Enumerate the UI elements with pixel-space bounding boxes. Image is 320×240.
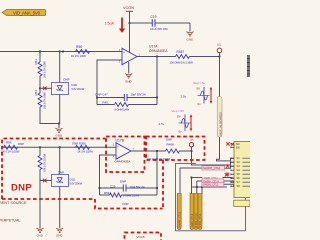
zener diode D20 — [40, 147, 83, 228]
svg-text:Vo-p = 5V: Vo-p = 5V — [172, 109, 184, 113]
svg-text:DNP: DNP — [120, 180, 126, 184]
DNP X mark net — [225, 173, 228, 176]
op-amp U17A — [119, 44, 169, 64]
svg-text:S6: S6 — [237, 176, 241, 180]
resistor R96 — [1, 141, 25, 154]
svg-text:S4: S4 — [237, 168, 241, 172]
svg-text:100 OHM 1% 1/16W: 100 OHM 1% 1/16W — [147, 157, 171, 161]
DNP X marks at mux pins — [226, 142, 229, 145]
svg-text:0.1UF 50V 10%: 0.1UF 50V 10% — [150, 27, 168, 31]
wire long vertical to mux — [217, 57, 235, 161]
current annotation 1.7uA red arrow right — [233, 143, 246, 159]
svg-text:C29: C29 — [110, 184, 116, 188]
net flag yellow vertical 1 — [177, 194, 181, 230]
svg-text:R59: R59 — [104, 191, 110, 195]
DNP X mark on D20 wire — [43, 179, 47, 183]
capacitor C29 feedback — [100, 180, 158, 192]
svg-text:SHUNT_CTL0: SHUNT_CTL0 — [178, 211, 181, 228]
svg-text:R50: R50 — [76, 45, 82, 49]
net label SHUNT_CTL0 — [180, 166, 234, 170]
svg-text:10pF 50V 2%: 10pF 50V 2% — [131, 92, 147, 96]
svg-text:VID_ANA_5V0: VID_ANA_5V0 — [13, 11, 41, 16]
svg-text:10K 0.1% 1/16W: 10K 0.1% 1/16W — [43, 153, 47, 172]
svg-text:DNP: DNP — [123, 202, 129, 206]
svg-text:1K 1% 1/16W: 1K 1% 1/16W — [78, 150, 94, 154]
net flag MUX_IN vertical label — [217, 97, 222, 138]
resistor R59 feedback — [100, 191, 158, 206]
resistor R468 — [147, 138, 179, 161]
svg-text:SHDN_CTL1: SHDN_CTL1 — [199, 213, 202, 228]
svg-text:DNP: DNP — [11, 183, 32, 194]
DNP dashed box left region — [2, 139, 163, 209]
power VCON — [123, 6, 134, 53]
net label SHDN_CTL0 — [197, 179, 234, 184]
resistor R45 feedback — [97, 101, 157, 112]
wire U17B output — [131, 150, 166, 152]
node junction output-feedback — [156, 55, 158, 57]
net flag yellow vertical 2 — [190, 194, 194, 230]
svg-text:106: 106 — [190, 139, 195, 142]
node junction R51-R54-D18 — [39, 87, 41, 89]
svg-text:NC: NC — [236, 142, 240, 146]
connector pin circle top — [217, 44, 222, 57]
svg-text:+: + — [123, 50, 125, 54]
mux pin arrowheads — [231, 143, 233, 187]
node junction pinB — [190, 150, 192, 152]
svg-text:5V: 5V — [177, 115, 181, 119]
node junction VCON-C19 — [128, 22, 130, 24]
svg-text:0v: 0v — [198, 102, 202, 106]
wire horizontal y187 — [192, 186, 228, 188]
ground GND below D20 — [56, 228, 63, 238]
svg-text:U17A: U17A — [149, 44, 158, 48]
node junction C47 right — [156, 96, 158, 98]
wire net vertical to flag2 — [191, 178, 193, 194]
ground GND below U17A — [125, 62, 133, 84]
capacitor C19 — [130, 15, 191, 31]
wire U17A output — [137, 56, 176, 58]
svg-text:DNP R366: DNP R366 — [72, 142, 86, 146]
svg-text:GND: GND — [125, 80, 133, 84]
svg-text:OPA4340EA: OPA4340EA — [115, 160, 131, 164]
svg-text:U17B: U17B — [116, 138, 125, 142]
svg-text:101: 101 — [217, 44, 222, 47]
svg-text:S8: S8 — [237, 184, 241, 188]
ground GND for C19 — [187, 23, 195, 42]
wire lower rail — [2, 146, 116, 148]
svg-text:OPA4340EA: OPA4340EA — [149, 49, 168, 53]
node junction rail-R51 — [39, 50, 41, 52]
current annotation 1.5uA red arrow — [105, 18, 126, 33]
DNP dashed vertical connector — [162, 160, 164, 209]
resistor vertical lower — [38, 147, 47, 228]
DNP dashed box VCC bottom — [125, 233, 162, 240]
svg-text:GND: GND — [56, 234, 62, 238]
svg-text:DNP: DNP — [64, 78, 70, 82]
svg-text:10K 0.1% 1/8W: 10K 0.1% 1/8W — [43, 92, 47, 109]
wire net vertical to flag4 — [201, 184, 203, 193]
svg-text:VCC5: VCC5 — [137, 235, 145, 239]
svg-text:DNP C47: DNP C47 — [96, 92, 109, 96]
svg-text:10K 0.1% 1/16W: 10K 0.1% 1/16W — [1, 150, 20, 154]
resistor R487 — [170, 50, 194, 64]
DNP dashed box U17B — [106, 137, 145, 173]
wire feedbackB right vertical — [156, 151, 158, 195]
svg-text:5.6V 20mW: 5.6V 20mW — [70, 182, 83, 186]
svg-text:20pF 50V 2%: 20pF 50V 2% — [130, 185, 146, 189]
node junction outputB-feedback — [156, 150, 158, 152]
svg-text:S3: S3 — [237, 164, 241, 168]
wire U17A inverting input — [97, 60, 122, 105]
svg-text:S5: S5 — [237, 172, 241, 176]
svg-text:DNP: DNP — [166, 138, 172, 142]
wire feedback right vertical — [156, 57, 158, 105]
node junction bottom rail — [58, 122, 60, 124]
svg-text:D18: D18 — [72, 83, 78, 87]
net label SHDN_CTL1 — [202, 182, 234, 186]
svg-text:GND: GND — [56, 134, 64, 138]
svg-text:C19: C19 — [151, 15, 157, 19]
svg-text:R51: R51 — [34, 59, 38, 65]
svg-text:DNP: DNP — [58, 171, 64, 175]
net flag yellow vertical 3 — [194, 194, 198, 230]
svg-text:R96: R96 — [6, 141, 12, 145]
node junction rail left — [62, 50, 64, 52]
node junction 187a — [196, 186, 198, 188]
svg-text:GND: GND — [187, 38, 195, 42]
svg-text:GND: GND — [37, 234, 43, 238]
svg-text:0 OHM 1/16W: 0 OHM 1/16W — [123, 193, 139, 197]
svg-text:+: + — [117, 145, 119, 149]
svg-text:S1: S1 — [237, 156, 241, 160]
svg-text:0v: 0v — [179, 130, 183, 134]
zener diode D18 — [40, 52, 85, 124]
svg-text:S7: S7 — [237, 180, 241, 184]
waveform annotation lower — [159, 109, 193, 134]
node junction at pin — [218, 55, 220, 57]
op-amp U17B — [113, 138, 135, 163]
svg-text:SHDN_CTL1: SHDN_CTL1 — [203, 183, 219, 187]
wire U17B inverting input — [100, 155, 117, 195]
frame sheet boundary — [176, 164, 246, 231]
resistor R366 — [72, 142, 93, 154]
svg-text:D20: D20 — [70, 178, 76, 182]
svg-text:Vo-p = 5v: Vo-p = 5v — [193, 81, 205, 85]
connector pin circle B — [189, 139, 194, 151]
svg-text:0 OHM 1/4W: 0 OHM 1/4W — [115, 107, 130, 111]
svg-text:S2: S2 — [237, 160, 241, 164]
svg-text:RENT SOURCE: RENT SOURCE — [0, 201, 27, 205]
svg-text:MUX_IN_BOARD0: MUX_IN_BOARD0 — [218, 112, 222, 136]
node junction loadctl — [190, 176, 192, 178]
svg-text:SHUNT_CTL0: SHUNT_CTL0 — [203, 166, 221, 170]
DNP dashed box R468 — [146, 137, 205, 161]
node junction C29 left — [98, 187, 100, 189]
svg-text:R487: R487 — [177, 50, 185, 54]
ground GND lower left — [37, 228, 44, 238]
svg-text:1.5uA: 1.5uA — [105, 22, 115, 26]
node junction rail-D20 — [59, 146, 61, 148]
capacitor C47 feedback — [96, 92, 158, 101]
resistor R50 — [71, 45, 89, 58]
svg-text:5.6V 20mW: 5.6V 20mW — [72, 87, 85, 91]
wire R468 to pin — [180, 150, 192, 152]
waveform annotation upper — [181, 81, 213, 106]
node junction 187b — [201, 186, 203, 188]
svg-text:R468: R468 — [167, 143, 175, 147]
svg-text:100 OHM 1% 1/16W: 100 OHM 1% 1/16W — [170, 60, 194, 64]
net flag VIN power label top-left — [2, 9, 46, 15]
mux internal switch lines — [243, 158, 251, 186]
net flag yellow vertical 4 — [198, 194, 202, 230]
svg-text:10K 0.1% 1/8W: 10K 0.1% 1/8W — [43, 61, 47, 78]
svg-text:EN: EN — [236, 145, 240, 149]
svg-text:R45: R45 — [103, 101, 109, 105]
wire R487 to pin — [190, 56, 220, 58]
resistor R54 — [34, 76, 47, 109]
node junction C29 right — [156, 187, 158, 189]
edge artifact right — [247, 55, 250, 77]
wire R54 bottom to ground rail — [40, 107, 59, 124]
multiplexer U mux IC — [234, 142, 251, 198]
resistor R51 — [34, 52, 47, 79]
connector block below IC — [234, 200, 250, 206]
DNP X mark on D18 wire — [43, 87, 47, 91]
node junction rail-Rvert — [39, 146, 41, 148]
node junction rail-D18 — [59, 50, 61, 52]
svg-text:10 1% 1/4W: 10 1% 1/4W — [71, 54, 86, 58]
net label LOAD_CTL1 — [192, 176, 235, 180]
svg-text:5V: 5V — [197, 87, 201, 91]
svg-text:R54: R54 — [34, 90, 38, 96]
svg-text:VCON: VCON — [123, 6, 134, 10]
node junction C47 left — [96, 96, 98, 98]
svg-text:2.5v: 2.5v — [181, 94, 187, 98]
svg-text:DNP: DNP — [18, 142, 24, 146]
svg-text:2.5v: 2.5v — [159, 122, 165, 126]
wire net vertical to flag1 — [179, 168, 181, 194]
ground GND below D18 — [56, 124, 64, 138]
wire net vertical to flag3 — [196, 181, 198, 194]
mux pin stubs left — [231, 144, 235, 186]
wire main input rail — [0, 51, 122, 53]
svg-text:PERPETUAL: PERPETUAL — [0, 219, 20, 223]
wire R468 net to mux S2 — [192, 151, 235, 165]
